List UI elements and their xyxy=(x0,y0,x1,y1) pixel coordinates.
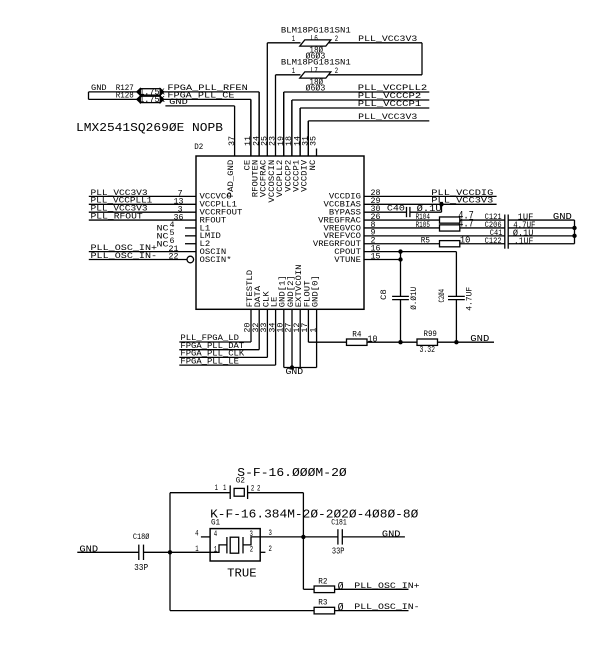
svg-text:LMX2541SQ269ØE NOPB: LMX2541SQ269ØE NOPB xyxy=(76,122,223,135)
svg-text:G1: G1 xyxy=(211,519,220,527)
resistor R105 4.7 on VREGVCO xyxy=(364,227,440,229)
svg-text:PLL_VCCPLL2: PLL_VCCPLL2 xyxy=(358,85,428,93)
svg-text:PLL_VCCCP2: PLL_VCCCP2 xyxy=(358,93,422,101)
wire C40 to VCCBIAS rail xyxy=(441,204,443,212)
svg-text:FPGA_PLL_LE: FPGA_PLL_LE xyxy=(180,358,239,366)
svg-text:LMID: LMID xyxy=(200,233,222,241)
svg-text:2: 2 xyxy=(257,485,261,493)
svg-text:PLL_RFOUT: PLL_RFOUT xyxy=(91,213,144,221)
wire FLOUT pin 17 to R4 xyxy=(307,309,309,342)
svg-text:PAD_GND: PAD_GND xyxy=(228,159,236,197)
svg-text:CLK: CLK xyxy=(263,291,271,307)
svg-text:CPOUT: CPOUT xyxy=(334,249,361,257)
svg-text:PLL_OSC_IN+: PLL_OSC_IN+ xyxy=(354,583,420,591)
svg-text:4: 4 xyxy=(170,222,175,230)
GND feed for R128 xyxy=(88,92,90,100)
wire L7 pin 2 joining VCC3V3 rail xyxy=(329,74,422,76)
svg-text:TRUE: TRUE xyxy=(227,568,256,581)
svg-text:22: 22 xyxy=(169,254,179,262)
svg-text:R3: R3 xyxy=(318,600,328,608)
svg-text:11: 11 xyxy=(245,136,253,146)
resistor R5 10 on VREGRFOUT xyxy=(364,243,440,245)
right rail of crystal loop xyxy=(302,493,304,590)
svg-text:37: 37 xyxy=(229,136,237,146)
capacitor C181 33P xyxy=(303,536,338,538)
junction dots on GND rail xyxy=(572,226,576,230)
svg-text:3: 3 xyxy=(178,206,183,214)
svg-text:VTUNE: VTUNE xyxy=(334,257,361,265)
svg-text:OSCIN*: OSCIN* xyxy=(200,257,232,265)
junction R99/C204 xyxy=(454,340,458,344)
svg-text:VCCCP1: VCCCP1 xyxy=(294,159,302,191)
net PLL_FPGA_LD pin 20 xyxy=(179,341,251,343)
wire RFEN down to pin 24 xyxy=(258,92,260,156)
junction R4/C8 xyxy=(398,340,402,344)
svg-text:2: 2 xyxy=(269,546,273,554)
svg-text:C121: C121 xyxy=(485,214,502,222)
svg-text:DATA: DATA xyxy=(255,286,263,308)
svg-text:VREGVCO: VREGVCO xyxy=(324,225,362,233)
svg-text:24: 24 xyxy=(253,136,261,146)
svg-text:Ø: Ø xyxy=(338,581,344,593)
svg-text:Ø.1U: Ø.1U xyxy=(417,203,442,214)
svg-text:R99: R99 xyxy=(424,331,438,339)
IC left pin 7 VCCVCO net PLL_VCC3V3 xyxy=(89,195,196,197)
capacitor bank C121 C206 C41 C122 plates xyxy=(504,215,506,249)
svg-text:VCCPLL1: VCCPLL1 xyxy=(200,202,238,210)
net FPGA_PLL_RFEN xyxy=(164,91,259,93)
net PLL_VCC3V3 wire (pin 29 VCCBIAS) xyxy=(364,203,497,205)
junction VTUNE xyxy=(398,257,402,261)
svg-text:1.75K: 1.75K xyxy=(139,94,165,105)
svg-text:10: 10 xyxy=(368,334,378,345)
svg-text:RFOUT: RFOUT xyxy=(200,217,227,225)
svg-text:BLM18PG181SN1: BLM18PG181SN1 xyxy=(281,59,351,67)
GND rail right of cap bank xyxy=(574,220,576,244)
svg-text:VCCCP2: VCCCP2 xyxy=(285,159,293,191)
svg-text:L6: L6 xyxy=(311,36,318,44)
svg-text:VCCFRAC: VCCFRAC xyxy=(261,159,269,197)
svg-text:VCCRFOUT: VCCRFOUT xyxy=(200,209,243,217)
wire L6 pin 2 to PLL_VCC3V3 xyxy=(329,42,422,44)
svg-text:K-F-16.384M-2Ø-2Ø2Ø-4Ø8Ø-8Ø: K-F-16.384M-2Ø-2Ø2Ø-4Ø8Ø-8Ø xyxy=(210,508,418,521)
svg-text:R2: R2 xyxy=(318,578,328,586)
svg-text:PLL_OSC_IN-: PLL_OSC_IN- xyxy=(91,253,158,261)
svg-text:2: 2 xyxy=(250,546,254,554)
inverting bubble on pin 22 OSCIN* xyxy=(187,256,194,263)
svg-text:FTESTLD: FTESTLD xyxy=(247,269,255,307)
IC left pin 21 OSCIN net PLL_OSC_IN+ xyxy=(89,251,196,253)
IC left pin 4 L1 net NC xyxy=(185,227,196,229)
svg-text:GND: GND xyxy=(91,85,107,93)
svg-text:VCCDIV: VCCDIV xyxy=(302,159,310,191)
svg-text:PLL_VCC3V3: PLL_VCC3V3 xyxy=(358,36,417,44)
svg-text:GND: GND xyxy=(169,99,188,107)
resistor R2 0 to PLL_OSC_IN+ xyxy=(303,588,314,590)
svg-text:GND[1]: GND[1] xyxy=(280,275,288,307)
net PLL_VCCDIG wire (pin 28) xyxy=(364,195,497,197)
svg-text:S-F-16.ØØØM-2Ø: S-F-16.ØØØM-2Ø xyxy=(237,467,346,480)
svg-text:1: 1 xyxy=(215,485,219,493)
svg-text:18: 18 xyxy=(286,136,294,146)
IC U-D2 LMX2541SQ2690E body xyxy=(196,156,364,309)
svg-text:L2: L2 xyxy=(200,241,211,249)
svg-text:C8: C8 xyxy=(381,289,389,300)
svg-text:NC: NC xyxy=(157,241,169,249)
svg-text:L1: L1 xyxy=(200,225,211,233)
svg-text:1: 1 xyxy=(223,485,227,493)
svg-text:GND: GND xyxy=(286,366,304,377)
svg-text:4.7UF: 4.7UF xyxy=(467,286,475,310)
svg-text:25: 25 xyxy=(262,136,270,146)
svg-text:R104: R104 xyxy=(416,214,431,222)
left rail of crystal loop xyxy=(169,493,171,611)
svg-text:13: 13 xyxy=(174,198,184,206)
IC top pin 24 RFOUTEN xyxy=(258,92,260,156)
svg-text:Ø.Ø1U: Ø.Ø1U xyxy=(410,286,419,309)
IC left pin 3 VCCRFOUT net PLL_VCC3V3 xyxy=(89,211,196,213)
IC top pin 14 VCCCP1 xyxy=(299,108,301,156)
wire VCCFRAC pin 25 to L6 pin 1 xyxy=(267,42,300,44)
net GND label top-left xyxy=(89,91,141,93)
svg-text:1: 1 xyxy=(292,68,296,76)
svg-text:PLL_VCC3V3: PLL_VCC3V3 xyxy=(358,114,417,122)
svg-text:C18Ø: C18Ø xyxy=(133,533,150,542)
svg-text:R128: R128 xyxy=(116,92,134,100)
IC top pin 31 VCCDIV xyxy=(307,121,309,156)
svg-text:36: 36 xyxy=(174,214,184,222)
svg-text:3.32: 3.32 xyxy=(420,344,436,355)
IC left pin 6 L2 net NC xyxy=(185,243,196,245)
svg-text:PLL_OSC_IN-: PLL_OSC_IN- xyxy=(354,604,419,612)
capacitor C40 0.1U on BYPASS xyxy=(364,211,407,213)
IC top pin 18 VCCCP2 xyxy=(291,100,293,156)
svg-text:BLM18PG181SN1: BLM18PG181SN1 xyxy=(281,27,351,35)
svg-text:2: 2 xyxy=(251,485,255,493)
svg-text:BYPASS: BYPASS xyxy=(329,209,361,217)
ferrite bead L6 BLM18PG181SN1 xyxy=(300,40,331,46)
svg-text:31: 31 xyxy=(303,136,311,146)
svg-text:OSCIN: OSCIN xyxy=(200,249,227,257)
IC left pin 22 OSCIN* net PLL_OSC_IN- xyxy=(89,259,187,261)
svg-text:C2Ø4: C2Ø4 xyxy=(438,289,447,303)
svg-text:3: 3 xyxy=(250,531,254,539)
svg-text:C206: C206 xyxy=(485,222,502,230)
IC left pin 5 LMID net NC xyxy=(185,235,196,237)
svg-text:33P: 33P xyxy=(332,546,345,557)
svg-text:VREGFRAC: VREGFRAC xyxy=(318,217,361,225)
svg-text:PLL_VCCDIG: PLL_VCCDIG xyxy=(431,190,493,198)
svg-text:1: 1 xyxy=(292,36,296,44)
IC top pin 19 VCCPLL2 xyxy=(283,92,285,156)
resistor R3 0 to PLL_OSC_IN- xyxy=(170,610,314,612)
svg-text:EXTVCOIN: EXTVCOIN xyxy=(296,264,304,307)
svg-text:35: 35 xyxy=(311,136,319,146)
junction CPOUT/C8 xyxy=(398,249,402,253)
junction GND rail xyxy=(290,365,294,369)
junction C40/VCCBIAS xyxy=(439,202,443,206)
svg-text:C41: C41 xyxy=(490,230,503,238)
svg-text:GND[2]: GND[2] xyxy=(288,275,296,307)
svg-text:4.7: 4.7 xyxy=(458,219,474,231)
svg-text:LE: LE xyxy=(272,296,280,307)
svg-text:4: 4 xyxy=(214,531,218,539)
G1 internal crystal symbol xyxy=(210,545,227,552)
net GND to PAD_GND pin 37 xyxy=(165,105,234,107)
svg-text:VCCDIG: VCCDIG xyxy=(329,194,361,202)
svg-text:D2: D2 xyxy=(194,144,203,152)
svg-text:Ø: Ø xyxy=(338,603,344,615)
svg-text:19: 19 xyxy=(278,136,286,146)
svg-text:GND: GND xyxy=(470,333,489,344)
wire CE down to pin 11 xyxy=(250,99,252,156)
svg-text:RFOUTEN: RFOUTEN xyxy=(253,159,261,197)
VTUNE wire xyxy=(364,259,401,261)
net FPGA_PLL_DAT pin 32 xyxy=(179,349,259,351)
svg-text:GND: GND xyxy=(553,211,572,222)
svg-text:C40: C40 xyxy=(387,205,405,213)
svg-text:GND[0]: GND[0] xyxy=(313,275,321,307)
svg-text:NC: NC xyxy=(310,159,318,170)
svg-text:R5: R5 xyxy=(421,238,431,246)
svg-text:L7: L7 xyxy=(311,68,318,76)
junction right rail/pin3 xyxy=(301,535,305,539)
svg-text:23: 23 xyxy=(270,136,278,146)
net PLL_VCCCP1 to pin 14 xyxy=(300,107,429,109)
svg-text:4: 4 xyxy=(195,530,199,538)
svg-text:PLL_VCCCP1: PLL_VCCCP1 xyxy=(358,101,422,109)
resistor R104 4.7 on VREGFRAC xyxy=(364,219,440,221)
svg-text:33P: 33P xyxy=(134,562,148,573)
svg-text:21: 21 xyxy=(169,246,179,254)
net PLL_VCCPLL2 to pin 19 xyxy=(284,91,430,93)
svg-text:NC: NC xyxy=(157,226,169,234)
cap values and wires to GND rail xyxy=(508,219,574,221)
svg-text:PLL_OSC_IN+: PLL_OSC_IN+ xyxy=(91,245,158,253)
wire VREFVCO to C41 xyxy=(364,235,505,237)
svg-text:7: 7 xyxy=(178,191,183,199)
IC top pin 37 PAD_GND xyxy=(234,106,236,156)
svg-text:GND: GND xyxy=(382,528,401,539)
vertical VCC3V3 rail joining beads xyxy=(421,43,423,75)
svg-text:VREGRFOUT: VREGRFOUT xyxy=(313,241,361,249)
svg-text:R105: R105 xyxy=(416,222,431,230)
svg-text:5: 5 xyxy=(170,230,175,238)
svg-text:PLL_VCC3V3: PLL_VCC3V3 xyxy=(91,206,148,214)
svg-text:FLOUT: FLOUT xyxy=(304,280,312,307)
svg-text:G2: G2 xyxy=(236,478,245,486)
capacitor C204 4.7UF xyxy=(455,252,457,297)
junction left rail/pin1 xyxy=(168,550,172,554)
G1 pin 4 stub NC xyxy=(201,536,210,538)
svg-text:VCCPLL2: VCCPLL2 xyxy=(277,159,285,197)
IC top pin 11 CE xyxy=(250,99,252,156)
svg-text:VREFVCO: VREFVCO xyxy=(324,233,362,241)
svg-text:14: 14 xyxy=(294,136,302,146)
GND rail under IC xyxy=(284,367,317,369)
IC top pin 35 NC xyxy=(316,149,318,157)
wire VCCOSCIN pin 23 to L7 pin 1 xyxy=(276,74,301,76)
svg-text:CE: CE xyxy=(244,159,252,170)
svg-text:VCCBIAS: VCCBIAS xyxy=(324,202,362,210)
svg-text:PLL_VCC3V3: PLL_VCC3V3 xyxy=(91,190,148,198)
svg-text:PLL_VCCPLL1: PLL_VCCPLL1 xyxy=(91,198,153,206)
net FPGA_PLL_CE xyxy=(164,98,251,100)
svg-text:6: 6 xyxy=(170,238,175,246)
svg-text:1: 1 xyxy=(214,546,218,554)
capacitor C8 0.01U xyxy=(400,252,402,297)
net PLL_VCCCP2 to pin 18 xyxy=(292,99,429,101)
svg-text:NC: NC xyxy=(157,234,169,242)
net FPGA_PLL_CLK pin 33 xyxy=(179,356,267,358)
svg-text:C181: C181 xyxy=(331,519,347,527)
IC left pin 13 VCCPLL1 net PLL_VCCPLL1 xyxy=(89,203,196,205)
svg-text:VCCOSCIN: VCCOSCIN xyxy=(269,159,277,202)
IC left pin 36 RFOUT net PLL_RFOUT xyxy=(89,219,196,221)
ferrite bead L7 BLM18PG181SN1 xyxy=(300,72,331,78)
svg-text:C122: C122 xyxy=(485,238,502,246)
net PLL_VCC3V3 to pin 31 VCCDIV xyxy=(308,120,429,122)
net FPGA_PLL_LE pin 34 xyxy=(179,364,275,366)
svg-text:.1UF: .1UF xyxy=(514,235,534,246)
CPOUT wire to loop filter xyxy=(364,251,456,253)
